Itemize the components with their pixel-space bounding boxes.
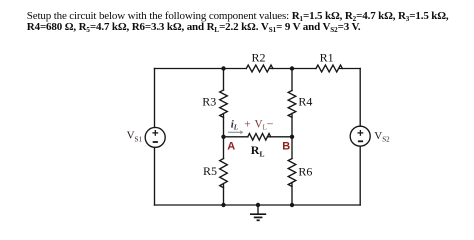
polarity label + VL - [244,118,273,132]
svg-text:R1: R1 [320,50,334,64]
svg-text:R2: R2 [252,50,266,64]
node A junction [221,135,225,139]
current label iL [231,118,238,131]
svg-text:RL: RL [251,143,265,159]
wire RL left segment [224,136,248,138]
source VS2 circle [350,126,370,146]
svg-text:iL: iL [231,118,238,131]
wire branch A top [223,69,225,91]
svg-text:VL: VL [255,118,267,131]
svg-text:–: – [266,118,273,130]
wire left edge lower [154,147,156,205]
svg-text:R4: R4 [298,95,312,109]
node junction top A [221,66,225,70]
resistor R3 [220,90,228,117]
ground stem [257,205,259,214]
wire top-left segment [155,68,247,70]
VS2 plus sign [358,132,364,134]
wire right edge upper [359,69,361,127]
ground bars [250,214,266,220]
node junction top B [290,66,294,70]
wire right edge lower [359,146,361,205]
source VS1 circle [145,127,165,147]
svg-text:R5: R5 [203,164,217,178]
wire branch B middle [291,114,293,159]
svg-text:VS1: VS1 [127,130,143,144]
wire RL right segment [267,136,292,138]
current arrow iL [228,131,241,133]
wire branch B bottom [291,183,293,206]
resistor R1 [316,65,342,72]
problem statement text line 2 [27,22,474,34]
problem statement text line 1 [27,11,474,23]
resistor R6 [288,159,296,187]
resistor RL [248,134,271,141]
VS1 plus sign [152,130,363,142]
resistor R5 [220,159,228,188]
resistor R2 [246,65,273,72]
svg-text:B: B [282,141,290,153]
wire branch A bottom [223,184,225,206]
VS1 minus sign [153,141,158,143]
wire branch A middle [223,114,225,159]
svg-text:R3: R3 [202,95,216,109]
node junction ground [256,203,260,207]
svg-text:R6: R6 [298,165,312,179]
wire top-right segment [339,68,361,70]
node junction bottom A [221,203,225,207]
resistor R4 [288,91,296,118]
wire left edge upper [154,69,156,128]
wire top-middle segment [269,68,316,70]
wire branch B top [291,69,293,91]
node B junction [290,135,294,139]
svg-text:VS2: VS2 [374,130,390,144]
svg-text:+: + [244,118,250,130]
svg-text:A: A [227,141,235,153]
node junction bottom B [290,203,294,207]
wire bottom rail [155,204,361,206]
VS2 minus sign [358,140,363,142]
